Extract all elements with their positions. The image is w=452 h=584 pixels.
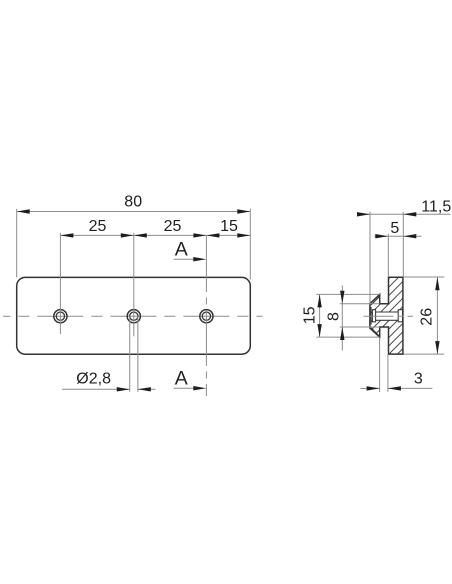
left counterbore outline: [372, 310, 375, 322]
section arrow A top: [174, 258, 196, 260]
bottom chamfer inner edge: [371, 328, 379, 336]
left counterbore white fill: [372, 310, 375, 322]
dim 5 arrow left (outside): [375, 234, 388, 238]
hole H2 inner: [130, 312, 138, 320]
hole H2 outer: [127, 310, 140, 323]
extension/centerline hole2: [133, 233, 135, 336]
top chamfer inner edge: [371, 296, 379, 304]
dim 3 arrow left (outside): [367, 386, 380, 390]
dim 26 line: [436, 277, 438, 354]
svg-text:15: 15: [301, 306, 318, 324]
svg-text:5: 5: [390, 220, 399, 237]
svg-text:26: 26: [419, 308, 436, 326]
bore white fill: [376, 312, 399, 320]
svg-text:Ø2,8: Ø2,8: [76, 371, 111, 388]
svg-text:A: A: [175, 239, 188, 261]
svg-text:25: 25: [164, 218, 182, 235]
hole H3 inner: [202, 312, 210, 320]
ext lines 3: [379, 338, 381, 392]
ext lines 15: [316, 293, 379, 295]
section silhouette outline: [370, 277, 403, 354]
dim 5 line: [374, 235, 421, 237]
dim 15 arrow down: [317, 324, 321, 337]
dim 80 arrow right: [237, 209, 250, 213]
plate outline (80x26 rounded rect): [17, 277, 251, 354]
extension/centerline hole1: [59, 233, 61, 334]
head front face inner edge line: [370, 307, 372, 325]
dim 80 line: [17, 211, 251, 213]
dim 15 line: [319, 294, 321, 337]
ext line right face: [402, 212, 404, 277]
dim 11,5 arrow right (outside): [403, 212, 416, 216]
section line A-A through hole3: [205, 236, 207, 396]
dim 2,8 arrow right: [138, 387, 151, 391]
section view centerline: [364, 315, 414, 317]
dim 3 arrow right (outside): [388, 386, 401, 390]
hole H1 outer: [54, 310, 67, 323]
dim 11,5 line: [357, 213, 451, 215]
right counterbore outline: [398, 310, 402, 322]
dim 8 arrow bottom (outside, pointing up): [340, 327, 344, 340]
hole H1 inner: [56, 312, 64, 320]
right counterbore white fill: [398, 310, 402, 322]
arrow pair at hole2: [121, 233, 134, 237]
dim 15 arrow up: [317, 294, 321, 307]
dim 26 arrow down: [435, 341, 439, 354]
dim 26 arrow up: [435, 277, 439, 290]
svg-text:3: 3: [414, 370, 423, 387]
ext line 11,5 left: [369, 212, 371, 305]
hatching: [312, 277, 452, 356]
dim 11,5 arrow left (outside): [357, 212, 370, 216]
horizontal centerline through holes: [3, 315, 263, 317]
svg-text:80: 80: [124, 194, 142, 211]
extension line left (80 dim): [16, 209, 18, 277]
dim 80 arrow left: [17, 209, 30, 213]
dim 3 line: [360, 387, 379, 389]
svg-text:15: 15: [220, 218, 238, 235]
ext lines 26: [404, 276, 445, 278]
dim 5 arrow right (outside): [403, 234, 416, 238]
ext line 5 left / plate left face: [387, 234, 389, 278]
arrow at hole1: [60, 233, 73, 237]
extension line right (80 dim): [249, 209, 251, 280]
arrow pair at hole3: [193, 233, 206, 237]
dim 25/25/15 line: [60, 234, 250, 236]
svg-text:A: A: [175, 368, 188, 390]
arrow at right edge: [237, 233, 250, 237]
dim 2,8 lines: [62, 388, 130, 390]
dim 2,8 arrow left: [117, 387, 130, 391]
extension lines for hole dia 2,8: [129, 316, 131, 392]
dim 8 line: [341, 286, 343, 351]
dim 8 arrow top (outside, pointing down): [340, 291, 344, 304]
ext lines 8: [340, 303, 380, 305]
svg-text:25: 25: [89, 218, 107, 235]
bore walls: [376, 311, 399, 313]
svg-text:8: 8: [325, 312, 342, 321]
section arrow A bottom: [174, 387, 196, 389]
hole H3 outer: [200, 310, 213, 323]
svg-text:11,5: 11,5: [421, 199, 451, 216]
